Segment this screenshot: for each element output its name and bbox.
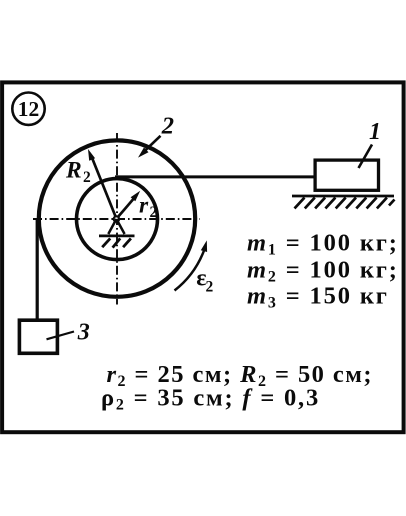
svg-text:2: 2 [83,169,91,186]
svg-text:2: 2 [150,204,158,221]
support hatch 2 [113,238,121,247]
radius arrow r2 [116,198,134,219]
rope from pulley to block 3 [36,219,39,319]
horizontal centerline [33,218,200,220]
support base line [99,235,135,238]
pulley inner circle r2 [77,179,158,260]
leader line to block 3 [47,332,75,340]
pulley outer circle R2 [39,140,195,296]
svg-text:r: r [139,193,149,219]
angular acceleration arrow epsilon2 [175,250,205,291]
pivot pin at pulley center [114,216,119,221]
support hatch 1 [102,238,110,247]
leader arrow to pulley rim [143,136,161,153]
problem number badge circle [12,93,44,125]
svg-text:m3 = 150 кг: m3 = 150 кг [247,283,389,312]
block 1 (mass m1) [315,160,378,190]
border frame [2,82,404,432]
svg-text:2: 2 [206,278,214,295]
rope from inner pulley to block 1 [115,175,314,178]
radius arrow R2 [93,159,117,219]
svg-text:2: 2 [161,112,174,139]
svg-text:3: 3 [77,320,90,346]
svg-text:12: 12 [18,97,40,121]
svg-text:R: R [65,158,82,184]
block 3 (mass m3) [19,320,57,353]
svg-text:m1 = 100 кг;: m1 = 100 кг; [247,230,399,259]
vertical centerline [116,133,118,305]
svg-text:1: 1 [369,119,381,145]
support triangle legs [108,219,124,234]
ground hatching under block 1 [295,198,395,209]
svg-text:m2 = 100 кг;: m2 = 100 кг; [247,257,399,286]
leader line to block 1 [359,145,373,169]
ground line under block 1 [292,195,394,198]
svg-text:ρ2 = 35 см; f = 0,3: ρ2 = 35 см; f = 0,3 [101,385,320,414]
support hatch 3 [123,238,131,247]
